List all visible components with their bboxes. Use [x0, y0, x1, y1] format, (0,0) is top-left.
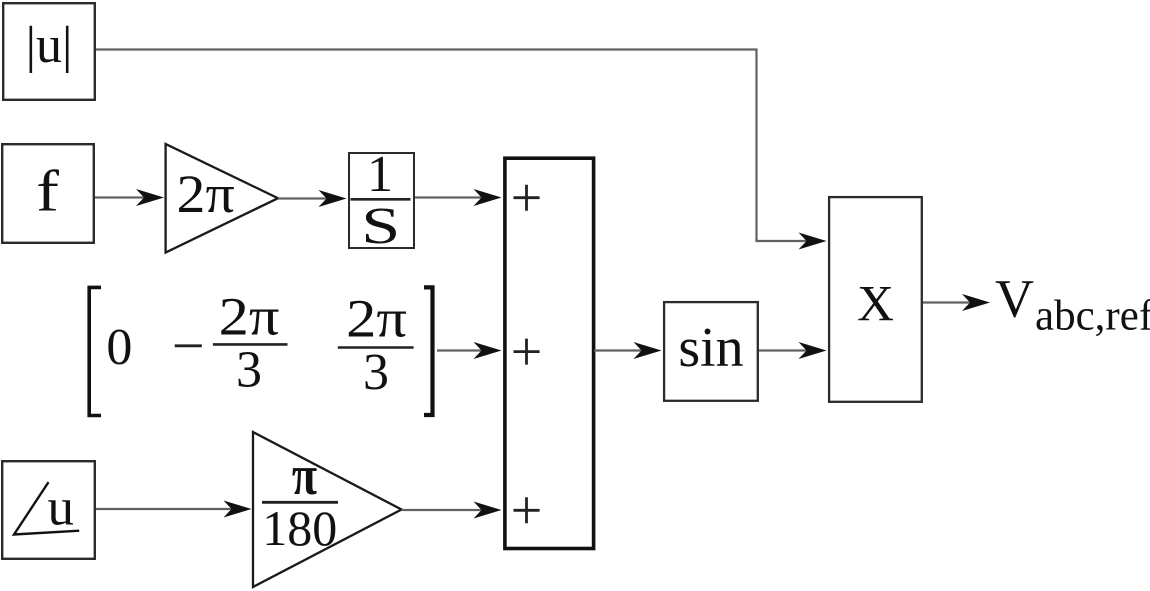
- gain triangle pi/180: [253, 432, 402, 587]
- fraction bar of 1/S: [351, 198, 411, 201]
- wire |u| to X block (top long wire): [96, 50, 812, 242]
- wire gain 2pi to integrator: [278, 197, 332, 199]
- wire matrix to sum: [437, 349, 487, 351]
- svg-text:f: f: [36, 158, 60, 223]
- integrator block 1/S: [349, 153, 414, 248]
- arrowhead into sum input 2: [474, 342, 502, 359]
- arrowhead to output label: [962, 294, 990, 311]
- plus sign 3: [514, 497, 540, 523]
- arrowhead into sum input 3: [474, 502, 502, 519]
- arrowhead into gain pi/180: [224, 501, 252, 518]
- svg-text:sin: sin: [678, 317, 743, 379]
- wire integrator to sum: [415, 196, 487, 198]
- svg-text:1: 1: [367, 146, 393, 203]
- svg-text:V: V: [995, 269, 1034, 329]
- svg-text:0: 0: [106, 319, 132, 376]
- svg-text:2π: 2π: [219, 287, 280, 346]
- wire gain pi/180 to sum: [402, 509, 488, 511]
- angle symbol: [14, 482, 79, 534]
- wire sum to sin: [594, 349, 647, 351]
- svg-text:S: S: [361, 198, 400, 255]
- block sin: [664, 302, 758, 401]
- right bracket: [424, 287, 433, 415]
- arrowhead into sum input 1: [474, 189, 502, 206]
- svg-text:3: 3: [363, 344, 389, 401]
- wire X block to output: [923, 301, 976, 303]
- svg-text:X: X: [857, 276, 894, 332]
- wire sin to X block: [759, 349, 812, 351]
- matrix constant [0 -2pi/3 2pi/3]: [89, 287, 432, 415]
- wire angle u to gain pi/180: [96, 508, 237, 510]
- arrowhead into X block top input: [799, 233, 827, 250]
- multiplier block X: [829, 197, 922, 402]
- arrowhead into sin: [634, 342, 662, 359]
- arrowhead into X block bottom input: [799, 342, 827, 359]
- svg-text:u: u: [47, 479, 74, 537]
- svg-text:180: 180: [262, 500, 337, 556]
- svg-text:2π: 2π: [346, 289, 407, 348]
- block f: [2, 144, 94, 243]
- svg-text:π: π: [292, 445, 317, 507]
- arrowhead into gain 2pi: [136, 189, 164, 206]
- plus sign 1: [514, 185, 540, 211]
- gain triangle 2pi: [166, 144, 278, 253]
- svg-text:|u|: |u|: [26, 17, 73, 74]
- plus sign 2: [514, 339, 540, 365]
- svg-text:3: 3: [236, 342, 262, 399]
- fraction bar of pi/180: [262, 501, 338, 504]
- sum block: [505, 158, 594, 548]
- left bracket: [89, 287, 101, 415]
- svg-text:2π: 2π: [177, 165, 235, 225]
- arrowhead into integrator: [319, 190, 347, 207]
- block angle u: [2, 461, 95, 559]
- svg-text:abc,ref: abc,ref: [1035, 293, 1150, 340]
- wire f to gain 2pi: [95, 196, 150, 198]
- block |u|: [3, 3, 95, 100]
- minus sign: [175, 344, 202, 347]
